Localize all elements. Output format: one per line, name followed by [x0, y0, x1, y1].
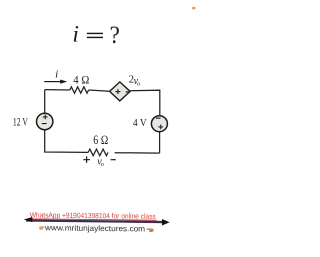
dependent source minus [126, 91, 130, 92]
V2 plus (bottom) [158, 125, 163, 130]
V1 minus (bottom) [42, 123, 47, 124]
svg-text:o: o [101, 161, 104, 168]
hand icon right pointing left [146, 228, 153, 232]
voltage source V1 12V circle [37, 113, 53, 129]
voltage source V2 4V circle [151, 116, 167, 132]
svg-text:6 Ω: 6 Ω [93, 133, 108, 147]
resistor R2 zigzag [88, 149, 108, 156]
svg-text:12 V: 12 V [13, 116, 28, 128]
svg-text:4 V: 4 V [133, 117, 147, 129]
svg-text:o: o [137, 81, 140, 88]
banner arrow right head [162, 219, 170, 225]
banner arrow shaft [26, 219, 166, 223]
polarity minus for vo [111, 159, 116, 160]
banner red underline [30, 218, 157, 220]
wire dependent source to top-right corner [130, 90, 160, 116]
resistor R1 zigzag [70, 87, 89, 93]
banner arrow left head [24, 217, 33, 222]
dependent source U1 diamond [110, 82, 131, 101]
wire resistor to dependent source [89, 90, 110, 91]
svg-text:?: ? [110, 21, 120, 50]
polarity plus for vo [83, 156, 90, 163]
wire bottom-right segment [115, 152, 160, 154]
wire right vertical lower [159, 132, 161, 153]
svg-text:i: i [55, 69, 58, 81]
wire bottom-left segment [45, 130, 88, 153]
V2 minus (top) [156, 118, 161, 119]
wire left vertical upper [44, 90, 46, 114]
svg-text:i: i [72, 22, 79, 48]
dependent source value label 2vo [129, 74, 141, 88]
svg-text:4 Ω: 4 Ω [73, 74, 89, 86]
stray orange mark top right [192, 7, 196, 9]
dependent source plus [115, 89, 120, 94]
svg-text:www.mritunjaylectures.com: www.mritunjaylectures.com [44, 223, 145, 233]
polarity label vo [97, 156, 104, 168]
hand icon left pointing right [39, 226, 44, 229]
title i = ? [72, 21, 119, 50]
banner strip [24, 210, 170, 233]
wire top-left segment [45, 89, 70, 91]
current arrow [44, 80, 67, 84]
V1 plus (top) [43, 115, 48, 120]
